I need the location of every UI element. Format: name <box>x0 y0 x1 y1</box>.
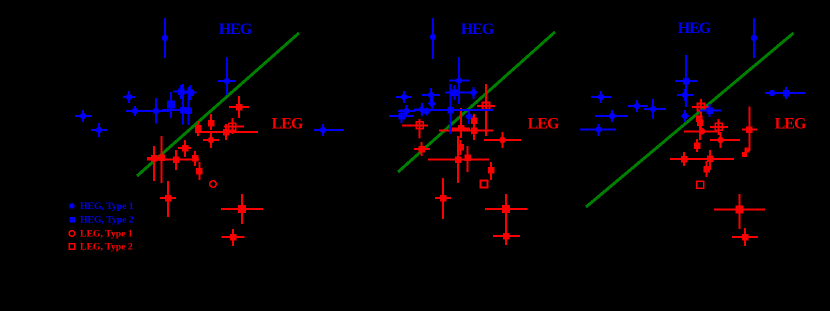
svg-text:LEG, Type 2: LEG, Type 2 <box>80 242 133 253</box>
svg-text:LEG: LEG <box>528 116 560 133</box>
svg-text:HEG, Type 1: HEG, Type 1 <box>80 201 134 212</box>
svg-text:LEG: LEG <box>775 116 807 133</box>
svg-text:HEG: HEG <box>678 20 712 37</box>
svg-text:LEG: LEG <box>272 116 304 133</box>
svg-text:LEG, Type 1: LEG, Type 1 <box>80 229 133 240</box>
svg-text:HEG: HEG <box>461 21 495 38</box>
svg-text:HEG, Type 2: HEG, Type 2 <box>80 215 134 226</box>
svg-text:HEG: HEG <box>219 21 253 38</box>
